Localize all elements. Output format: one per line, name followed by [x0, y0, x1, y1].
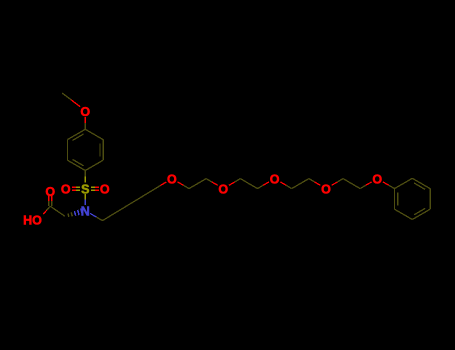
svg-text:O: O: [270, 173, 280, 187]
bond HO-carboxyl C: [43, 210, 46, 214]
ring 2 aromatic inner double bonds: [414, 183, 425, 189]
chain C11-C12: [343, 179, 352, 184]
svg-text:O: O: [80, 105, 90, 119]
bond O5-phenyl ipso: [383, 182, 389, 185]
bond ring1-S: [84, 171, 86, 177]
benzene ring 2 (terminal phenyl): [395, 178, 413, 188]
benzene ring 1 (4-methoxyphenyl): [85, 129, 103, 139]
chain C9-C10: [292, 184, 301, 189]
C=O carbonyl double bond: [48, 201, 50, 206]
S=O left double bond: [72, 186, 76, 188]
svg-text:O: O: [167, 173, 177, 187]
svg-text:O: O: [218, 183, 228, 197]
methyl CH3 of methoxy group: [71, 100, 80, 107]
chain C6-O2: [206, 179, 212, 182]
chain O2-C7: [229, 182, 235, 185]
svg-text:O: O: [372, 173, 382, 187]
chain C8-O3: [258, 185, 264, 188]
chain C10-O4: [309, 179, 315, 182]
svg-text:O: O: [321, 183, 331, 197]
svg-text:O: O: [45, 185, 55, 199]
svg-text:O: O: [100, 183, 110, 197]
chain C5-C6: [189, 184, 198, 189]
svg-text:O: O: [61, 183, 71, 197]
bond Ca-carboxyl C: [58, 211, 65, 216]
bond S-N: [84, 194, 86, 199]
svg-text:HO: HO: [23, 213, 42, 227]
chain C7-C8: [240, 179, 249, 184]
chain C12-O5: [360, 185, 366, 188]
chain O4-C11: [332, 182, 338, 185]
hashed stereo bond Ca-N: [67, 214, 70, 217]
chain C1 to O1 straight segment (4 bonds): [103, 186, 161, 221]
chain O1-C5: [178, 182, 184, 185]
bond N-C1: [90, 213, 96, 217]
chain O3-C9: [280, 182, 286, 185]
S=O right double bond: [91, 186, 95, 188]
ring 1 aromatic inner double bonds: [73, 134, 84, 140]
bond O-ring (aryl ether): [84, 117, 86, 123]
